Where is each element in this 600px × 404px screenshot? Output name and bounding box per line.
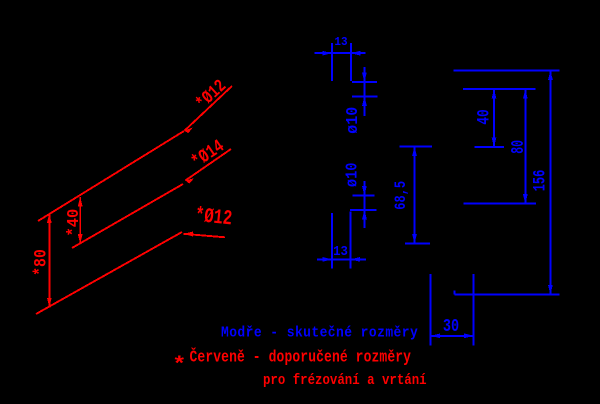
arrow 68,5 top (inside, pointing up) — [412, 147, 417, 157]
svg-text:156: 156 — [532, 170, 551, 192]
arrow o10 upper bottom (outside, pointing up) — [362, 96, 367, 106]
svg-text:40: 40 — [474, 109, 494, 125]
arrow 13 top right (outside, pointing left) — [351, 51, 361, 56]
leader line for *Ø12 — [185, 86, 233, 131]
leader line for lower *Ø12 — [184, 234, 226, 238]
svg-text:30: 30 — [443, 316, 459, 336]
arrow 13 top left (outside, pointing right) — [322, 51, 332, 56]
dim 30: dimension line — [431, 335, 474, 337]
svg-text:13: 13 — [334, 36, 347, 50]
profile line top — [454, 69, 560, 71]
arrow 30 left (inside, pointing left) — [431, 333, 441, 338]
arrow leader *Ø14 — [185, 178, 194, 183]
dim 30: extension line left — [430, 274, 432, 346]
svg-text:13: 13 — [333, 243, 348, 259]
dim 80: dimension line — [524, 89, 526, 203]
profile line third — [475, 146, 504, 148]
dim 68,5: bottom tick — [405, 243, 430, 245]
arrow 80 bottom — [523, 194, 528, 204]
svg-text:*80: *80 — [30, 249, 51, 276]
dim 13 top: extension line left — [331, 43, 333, 81]
stub at bottom line left end — [454, 291, 456, 295]
dim 156: dimension line — [549, 70, 551, 294]
dim line o10 lower — [363, 181, 365, 228]
svg-text:*Ø12: *Ø12 — [194, 204, 233, 232]
arrow leader lower *Ø12 — [184, 232, 194, 237]
arrow 156 top — [548, 70, 553, 80]
svg-text:68,5: 68,5 — [393, 181, 411, 210]
svg-text:ø10: ø10 — [344, 107, 363, 134]
leader line for *Ø14 — [185, 149, 231, 181]
arrow 156 bottom — [548, 285, 553, 295]
dim 40: dimension line — [493, 89, 495, 147]
profile line second — [463, 88, 536, 90]
arrow 40 top — [492, 89, 497, 99]
dimension *80 line — [48, 214, 50, 308]
tick line y210 — [350, 209, 377, 211]
dim 30: extension line right — [473, 274, 475, 346]
dim 13 top: extension line right — [350, 43, 352, 81]
svg-text:ø10: ø10 — [343, 163, 361, 188]
wire line 1 (top diagonal) — [38, 131, 184, 221]
dim 13 bottom: dimension line — [317, 258, 366, 260]
svg-text:*40: *40 — [65, 209, 84, 237]
arrow 13 bottom right — [351, 257, 361, 262]
tick line y96 — [352, 95, 378, 97]
svg-text:Červeně - doporučené rozměry: Červeně - doporučené rozměry — [190, 347, 412, 367]
arrow 13 bottom left — [322, 257, 332, 262]
arrow o10 lower top (outside, pointing down) — [362, 186, 367, 196]
tick line y82 — [352, 81, 377, 83]
dim 13 bottom: extension line left — [331, 213, 333, 269]
svg-text:Modře - skutečné rozměry: Modře - skutečné rozměry — [221, 325, 418, 342]
dim 13 top: dimension line — [315, 52, 366, 54]
arrow 30 right (inside, pointing right) — [464, 333, 474, 338]
profile line bottom — [455, 293, 560, 295]
arrow *40 bottom — [78, 234, 83, 244]
wire line 3 (bottom diagonal) — [36, 232, 182, 314]
arrow *80 bottom — [47, 298, 52, 308]
arrow o10 lower bottom (outside, pointing up) — [362, 210, 367, 220]
arrow 40 bottom — [492, 138, 497, 148]
arrow *40 top — [78, 197, 83, 207]
svg-text:80: 80 — [507, 140, 529, 154]
wire line 2 (middle diagonal) — [72, 184, 183, 248]
arrow o10 upper top (outside, pointing down) — [362, 73, 367, 83]
dim 68,5: top tick — [400, 146, 432, 148]
svg-text:pro frézování a vrtání: pro frézování a vrtání — [263, 373, 427, 389]
svg-text:*: * — [172, 353, 187, 376]
profile line fourth — [464, 203, 536, 205]
tick line y195 — [352, 194, 374, 196]
dim line o10 upper — [363, 67, 365, 116]
dim 13 bottom: extension line right — [350, 212, 352, 269]
arrow 68,5 bottom (inside, pointing down) — [412, 234, 417, 244]
arrow 80 top — [523, 89, 528, 99]
dimension *40 line — [79, 197, 81, 244]
dim 68,5: dimension line — [414, 147, 416, 244]
arrow *80 top — [47, 214, 52, 224]
arrow leader *Ø12 — [185, 127, 193, 133]
